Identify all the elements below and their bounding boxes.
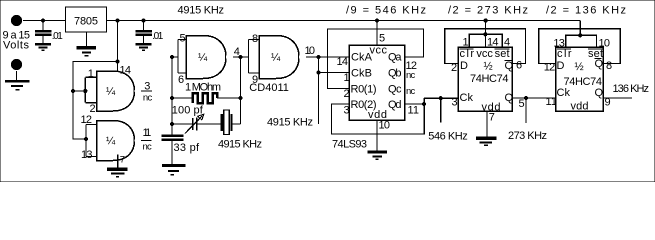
ground (33 pf) bbox=[162, 166, 186, 175]
node resistor left bbox=[170, 96, 174, 100]
wire down to CkB and 4915 terminal bbox=[318, 57, 320, 124]
svg-text:7: 7 bbox=[489, 112, 495, 124]
svg-text:14: 14 bbox=[337, 56, 349, 68]
svg-text:5: 5 bbox=[519, 98, 525, 110]
node at gate U1a tap bbox=[71, 89, 75, 93]
nand gate U1d (buffer) bbox=[259, 36, 299, 79]
svg-text:nc: nc bbox=[406, 86, 416, 97]
svg-text:D: D bbox=[557, 60, 565, 72]
ground (C2) bbox=[136, 44, 152, 50]
svg-text:R0(1): R0(1) bbox=[351, 83, 377, 95]
svg-text:3: 3 bbox=[144, 81, 150, 93]
wire rail down to gate U1a pin 14 bbox=[117, 21, 119, 73]
node unused-inputs branch bbox=[115, 59, 119, 63]
node rail to pin 5 bbox=[375, 18, 379, 22]
node rail drop U2 bbox=[484, 18, 488, 22]
svg-text:/9 = 546 KHz: /9 = 546 KHz bbox=[346, 5, 426, 17]
counter 74LS93 box bbox=[349, 45, 405, 120]
svg-text:/2 = 273 KHz: /2 = 273 KHz bbox=[448, 5, 528, 17]
wire U2 pin 7 to ground bbox=[486, 111, 488, 137]
svg-text:vdd: vdd bbox=[571, 101, 589, 113]
nand gate U1a (1/4 CD4011, unused) bbox=[97, 71, 135, 111]
svg-text:3: 3 bbox=[452, 97, 458, 109]
svg-text:nc: nc bbox=[143, 142, 153, 153]
U1c input bar and stubs (pins 5,6) bbox=[178, 39, 186, 41]
U3 clr/set tie bracket bbox=[566, 35, 597, 47]
svg-text:273 KHz: 273 KHz bbox=[508, 130, 547, 142]
svg-text:1: 1 bbox=[463, 37, 469, 49]
U3 D-Qbar loop (outer) bbox=[539, 29, 621, 64]
svg-text:12: 12 bbox=[544, 62, 556, 74]
svg-text:Ck: Ck bbox=[460, 92, 474, 104]
node U1b input bar bbox=[84, 137, 88, 141]
svg-text:2: 2 bbox=[344, 88, 350, 100]
wire + to 7805 bbox=[23, 20, 66, 22]
node at C1 bbox=[41, 18, 45, 22]
terminal 546 KHz output bbox=[438, 122, 444, 128]
svg-text:CD4011: CD4011 bbox=[249, 82, 289, 94]
stub U1a output pin 3 bbox=[141, 90, 152, 92]
svg-text:6: 6 bbox=[516, 60, 522, 72]
ground (C1) bbox=[35, 44, 51, 50]
wire to CkB bbox=[319, 72, 350, 74]
ground (74LS93) bbox=[367, 152, 387, 159]
node bracket U2 bbox=[483, 32, 487, 36]
capacitor C2 .01 bbox=[135, 31, 152, 35]
svg-text:5: 5 bbox=[180, 33, 186, 45]
stub U1b output pin 11 bbox=[141, 140, 151, 142]
svg-text:D: D bbox=[460, 60, 468, 72]
node Qd junction bbox=[422, 102, 426, 106]
svg-text:Qd: Qd bbox=[388, 99, 402, 111]
svg-text:¼: ¼ bbox=[271, 52, 281, 64]
svg-text:1 MOhm: 1 MOhm bbox=[185, 82, 221, 94]
svg-text:vcc: vcc bbox=[476, 48, 493, 60]
nand gate U1c (oscillator) bbox=[186, 36, 226, 79]
U2 D-Qbar loop (outer) bbox=[445, 29, 526, 64]
U3 internal labels bbox=[557, 48, 604, 113]
ground (U2) bbox=[476, 138, 497, 145]
U2 internal labels bbox=[460, 48, 514, 114]
node trimmer left bbox=[170, 122, 174, 126]
ground (minus terminal) bbox=[5, 81, 30, 89]
svg-text:½: ½ bbox=[484, 61, 493, 73]
wire U2 Q to U3 Ck bbox=[512, 97, 556, 99]
wire rail to U2 vcc pin 14 bbox=[484, 21, 486, 48]
svg-text:2: 2 bbox=[451, 62, 457, 74]
node 546 tap bbox=[439, 96, 443, 100]
U2 clr/set tie bracket bbox=[469, 34, 502, 47]
wire node to C2 bbox=[143, 21, 145, 31]
74LS93 internal labels bbox=[351, 45, 403, 122]
svg-text:Q: Q bbox=[595, 58, 604, 70]
svg-text:1: 1 bbox=[88, 68, 94, 80]
nand gate U1b (1/4 CD4011, unused) bbox=[97, 121, 135, 161]
label 9 a 15 Volts bbox=[3, 30, 31, 52]
wire tap to U1a input bar bbox=[73, 90, 85, 92]
svg-text:Volts: Volts bbox=[3, 40, 30, 52]
wire C2 to ground bbox=[143, 36, 145, 43]
wire R0(2) to Qd loop bbox=[331, 98, 424, 134]
bubble U1a output bbox=[135, 88, 142, 95]
svg-text:100 pf: 100 pf bbox=[172, 105, 204, 117]
svg-text:4915 KHz: 4915 KHz bbox=[267, 117, 313, 129]
node rail to CD4011 pin 14 bbox=[115, 18, 119, 22]
node osc feedback left top bbox=[170, 55, 174, 59]
flip-flop U3 74HC74 box bbox=[556, 47, 604, 111]
bubble U1b output bbox=[135, 137, 142, 144]
svg-text:5: 5 bbox=[379, 33, 385, 45]
node resistor right bbox=[238, 96, 242, 100]
svg-text:4915 KHz: 4915 KHz bbox=[178, 5, 225, 17]
wire feedback right vertical bbox=[240, 57, 242, 124]
svg-text:4915 KHz: 4915 KHz bbox=[218, 139, 262, 151]
svg-text:clr: clr bbox=[460, 48, 475, 60]
svg-text:clr: clr bbox=[557, 48, 572, 60]
terminal 4915 KHz output bbox=[315, 124, 321, 130]
svg-text:7805: 7805 bbox=[74, 16, 98, 28]
ground (7805) bbox=[77, 48, 97, 56]
terminal 136 KHz output bbox=[632, 95, 638, 101]
svg-text:11: 11 bbox=[143, 127, 152, 139]
svg-text:Ck: Ck bbox=[557, 87, 571, 99]
U1a input bar and stubs (pins 1,2) bbox=[85, 76, 96, 78]
svg-text:4: 4 bbox=[504, 37, 510, 49]
terminal + (positive supply input) bbox=[11, 15, 22, 26]
svg-text:3: 3 bbox=[344, 105, 350, 117]
node rail to C2 bbox=[141, 18, 145, 22]
wire U1d output to 74LS93 CkA bbox=[306, 56, 349, 58]
wire down to 273 terminal bbox=[525, 98, 527, 123]
bubble U1d output bbox=[299, 54, 306, 61]
terminal - (negative supply input) bbox=[11, 59, 22, 70]
node bracket U3 bbox=[578, 33, 582, 37]
wire +5V rail bbox=[107, 20, 581, 22]
svg-text:CkB: CkB bbox=[351, 67, 372, 79]
U1d input bar and stubs (pins 8,9) bbox=[249, 39, 260, 41]
regulator 7805 bbox=[66, 7, 107, 32]
ground (U1b pin 7) bbox=[107, 169, 128, 176]
svg-text:vcc: vcc bbox=[370, 45, 388, 57]
svg-text:8: 8 bbox=[252, 33, 258, 45]
svg-text:nc: nc bbox=[406, 70, 416, 81]
svg-text:.01: .01 bbox=[52, 31, 63, 42]
flip-flop U2 74HC74 box bbox=[458, 47, 512, 111]
svg-text:14: 14 bbox=[487, 37, 499, 49]
svg-text:CkA: CkA bbox=[351, 52, 373, 64]
U1b input bar and stubs (pins 12,13) bbox=[86, 124, 97, 126]
terminal 273 KHz output bbox=[523, 123, 529, 129]
wire R0(1) to Qa loop bbox=[328, 29, 424, 89]
svg-text:546 KHz: 546 KHz bbox=[428, 131, 468, 143]
svg-text:set: set bbox=[495, 48, 510, 60]
svg-text:6: 6 bbox=[178, 74, 184, 86]
wire U1c pin 4 to U1d inputs bbox=[233, 56, 249, 58]
crystal X1 4915 KHz bbox=[222, 110, 241, 135]
wire Qd out bbox=[405, 103, 425, 105]
wire branch to unused gate inputs bbox=[73, 62, 118, 140]
svg-text:¼: ¼ bbox=[106, 136, 116, 148]
svg-text:Q: Q bbox=[595, 87, 604, 99]
svg-text:Qc: Qc bbox=[388, 83, 402, 95]
svg-text:74HC74: 74HC74 bbox=[470, 73, 509, 85]
svg-text:¼: ¼ bbox=[106, 86, 116, 98]
wire U1b pin 7 to ground bbox=[117, 155, 119, 169]
svg-text:10: 10 bbox=[305, 45, 316, 57]
wire 74LS93 pin 10 to ground bbox=[376, 120, 378, 151]
node feedback right top bbox=[238, 55, 242, 59]
wire 7805 to ground bbox=[86, 32, 88, 47]
svg-text:11: 11 bbox=[408, 105, 420, 117]
capacitor C1 .01 bbox=[35, 31, 52, 35]
trimmer capacitor 100 pf bbox=[172, 114, 221, 133]
svg-text:33 pf: 33 pf bbox=[174, 142, 200, 154]
svg-text:nc: nc bbox=[143, 93, 153, 104]
svg-text:10: 10 bbox=[379, 120, 391, 132]
wire U3 Q to 136 terminal bbox=[603, 97, 632, 99]
svg-text:74LS93: 74LS93 bbox=[332, 139, 367, 151]
svg-text:7: 7 bbox=[120, 155, 125, 166]
wire down to 546 terminal bbox=[440, 98, 442, 122]
bubble U1c output bbox=[226, 54, 233, 61]
wire rail end to U3 bracket bbox=[579, 21, 581, 36]
svg-text:13: 13 bbox=[81, 149, 93, 161]
svg-text:11: 11 bbox=[546, 96, 558, 108]
wire to U1c input bar bbox=[172, 56, 178, 58]
wire C1 to ground bbox=[42, 36, 44, 43]
node input to CkA bbox=[316, 55, 320, 59]
svg-text:136 KHz: 136 KHz bbox=[613, 83, 650, 95]
capacitor C3 33 pf bbox=[162, 136, 184, 165]
svg-text:Qa: Qa bbox=[388, 52, 402, 64]
wire rail to pin 5 bbox=[376, 21, 378, 46]
svg-text:8: 8 bbox=[606, 60, 612, 72]
svg-text:.01: .01 bbox=[152, 31, 163, 42]
svg-text:1: 1 bbox=[344, 72, 350, 84]
svg-text:Qb: Qb bbox=[388, 67, 402, 79]
wire node to C1 bbox=[42, 21, 44, 31]
resistor R1 1 MOhm bbox=[172, 93, 241, 103]
wire Qd to U2 Ck bbox=[424, 97, 458, 99]
svg-text:½: ½ bbox=[575, 61, 584, 73]
svg-text:¼: ¼ bbox=[198, 52, 208, 64]
wire feedback left vertical bbox=[171, 57, 173, 135]
svg-text:Q: Q bbox=[505, 60, 514, 72]
node 273 tap bbox=[524, 96, 528, 100]
svg-text:/2 = 136 KHz: /2 = 136 KHz bbox=[546, 5, 626, 17]
node U1a input bar bbox=[83, 89, 87, 93]
svg-text:12: 12 bbox=[81, 114, 93, 126]
wire minus to ground bbox=[16, 71, 18, 81]
node CkB tap bbox=[316, 70, 320, 74]
